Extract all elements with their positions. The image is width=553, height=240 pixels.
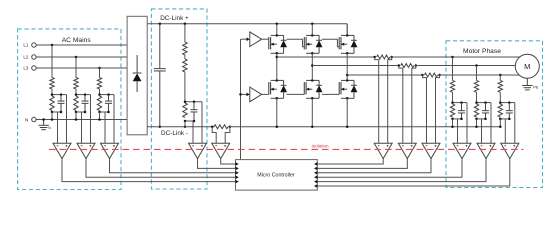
- wire shunt C sense minus: [423, 75, 427, 143]
- wire divider lead: [184, 24, 186, 42]
- junction phase C: [346, 74, 349, 77]
- wire DC RC to bus-: [184, 121, 186, 127]
- resistor R2 (line sense): [74, 78, 78, 90]
- arrow into controller left y=168.4: [235, 167, 238, 171]
- wire motor R11 to RC: [452, 92, 454, 102]
- junction shunt R10 left: [421, 74, 424, 77]
- wire DC sense minus: [192, 121, 194, 143]
- wire motor branch C to bus: [499, 119, 501, 127]
- capacitor C7 (motor RC): [485, 103, 487, 111]
- svg-text:AC Mains: AC Mains: [62, 37, 92, 44]
- wire R3 to divider: [99, 89, 101, 95]
- junction shunt R9 right: [415, 64, 418, 67]
- micro controller U3: [236, 160, 318, 191]
- wire A5 output to controller: [221, 159, 236, 164]
- junction motor branch B: [475, 64, 478, 67]
- ground PE (motor earth): [526, 78, 528, 85]
- svg-text:DC-Link -: DC-Link -: [161, 130, 188, 137]
- junction neutral-ground: [42, 118, 45, 121]
- wire A1 output to controller: [62, 159, 236, 182]
- junction DC shunt right: [229, 126, 232, 129]
- junction DC shunt left: [211, 126, 214, 129]
- wire motor branch A down: [452, 57, 454, 80]
- transistor Q2 (high side): [303, 37, 305, 49]
- junction shunt R10 right: [438, 74, 441, 77]
- junction shunt R9 left: [398, 64, 401, 67]
- junction Q5 source on DC- bus: [311, 126, 314, 129]
- capacitor C6 (motor RC): [461, 103, 463, 111]
- capacitor C5 (DC RC): [193, 102, 195, 110]
- wire A10 output to controller: [317, 159, 486, 182]
- wire L3 to rectifier: [36, 67, 127, 69]
- resistor R5 (divider lower): [183, 59, 187, 72]
- arrow into controller right y=186: [314, 184, 317, 188]
- junction phase A: [276, 56, 279, 59]
- wire motor sense B minus: [481, 119, 483, 143]
- transistor Q1 (high side): [268, 37, 270, 49]
- junction Q2 drain on DC+ bus: [311, 23, 314, 26]
- node motor bar bottom A: [453, 118, 462, 120]
- wire phase A to motor: [392, 56, 528, 58]
- resistor R16 (motor RC): [498, 104, 502, 117]
- wire A7 output to controller: [317, 159, 407, 169]
- capacitor C1 (filter): [60, 95, 62, 101]
- arrow into bottom driver: [246, 93, 249, 97]
- transistor Q6 (low side): [338, 82, 340, 94]
- wire A6 output to controller: [317, 159, 383, 164]
- node divider top bar L2: [76, 94, 91, 96]
- wire motor sense C minus: [504, 119, 506, 143]
- op-amp A8 (phase C current): [422, 143, 440, 158]
- op-amp A6 (phase A current): [374, 143, 392, 158]
- svg-text:L2: L2: [23, 55, 29, 60]
- rectifier block: [127, 16, 147, 135]
- wire A2 output to controller: [86, 159, 236, 178]
- wire divider to RC: [184, 72, 186, 102]
- svg-text:L1: L1: [23, 43, 29, 48]
- wire A9 output to controller: [317, 159, 462, 178]
- wire phase C to shunt: [347, 74, 422, 76]
- junction L3 branch tap: [98, 67, 101, 70]
- transistor Q5 (low side): [303, 82, 305, 94]
- wire sense L1 plus: [66, 95, 68, 144]
- op-amp A4 (DC-link voltage): [189, 143, 207, 158]
- wire shunt C sense plus: [436, 75, 440, 143]
- wire phase leg 1 column: [276, 53, 278, 80]
- wire motor R12 to RC: [476, 92, 478, 102]
- wire Q3 drain: [346, 24, 348, 36]
- node motor bar top B: [477, 102, 492, 104]
- wire Q5 source: [311, 98, 313, 127]
- capacitor C4 (DC bus): [159, 24, 161, 69]
- junction L1 branch tap: [51, 44, 54, 47]
- capacitor C8 (motor RC): [508, 103, 510, 111]
- node divider bottom bar L2: [76, 111, 85, 113]
- wire DC-Link- bus: [147, 126, 214, 128]
- wire motor branch C down: [499, 75, 501, 80]
- gate driver U1 (top): [250, 32, 262, 47]
- wire L3 branch down: [99, 68, 101, 78]
- wire DC-Link- bus to motor section: [228, 126, 500, 128]
- wire top bus corner to Q3 drain: [346, 24, 348, 36]
- wire top gate bus seg1: [262, 38, 269, 40]
- arrow into top driver: [246, 37, 249, 41]
- junction Q6 source on DC- bus: [346, 126, 349, 129]
- node DC divider bar bottom: [185, 120, 194, 122]
- wire L2 branch down: [75, 57, 77, 78]
- junction driver feed: [239, 93, 242, 96]
- wire L1 to rectifier: [36, 44, 127, 46]
- wire DC-Link+ bus: [147, 23, 347, 25]
- wire top gate bus seg3: [322, 39, 339, 47]
- wire Q2 drain: [311, 24, 313, 36]
- wire A4 output to controller: [198, 159, 236, 169]
- wire shunt sense minus: [212, 127, 216, 143]
- wire sense L3 plus: [113, 95, 115, 144]
- wire sense L3 minus: [104, 112, 106, 143]
- op-amp A3 (L3 voltage sense): [101, 143, 119, 158]
- op-amp A10 (motor phase B): [477, 143, 495, 158]
- arrow into controller left y=181.6: [235, 180, 238, 184]
- op-amp A11 (motor phase C): [501, 143, 519, 158]
- transistor Q3 (high side): [338, 37, 340, 49]
- svg-text:M: M: [524, 62, 530, 71]
- arrow into controller right y=181.6: [314, 180, 317, 184]
- isolation barrier (red dashed): [49, 148, 524, 150]
- wire phase leg 3 column: [346, 53, 348, 80]
- wire motor branch B down: [476, 66, 478, 81]
- wire motor sense A minus: [457, 119, 459, 143]
- node divider bottom bar L1: [52, 111, 61, 113]
- wire A11 output to controller: [317, 159, 510, 186]
- capacitor C3 (filter): [108, 95, 110, 101]
- node divider bottom bar L3: [100, 111, 109, 113]
- gate driver U2 (bottom): [250, 87, 262, 102]
- wire A3 output to controller: [110, 159, 236, 173]
- resistor R4 (divider upper): [183, 42, 187, 55]
- resistor R15 (motor RC): [474, 104, 478, 117]
- arrow into controller left y=177.2: [235, 175, 238, 179]
- wire sense L2 plus: [90, 95, 92, 144]
- op-amp A2 (L2 voltage sense): [77, 143, 95, 158]
- wire bottom gate bus seg1: [262, 93, 269, 95]
- wire sense L2 minus: [81, 112, 83, 143]
- AC Mains dashed region box: [18, 29, 121, 190]
- Motor Phase dashed region box: [446, 41, 543, 188]
- op-amp A7 (phase B current): [398, 143, 416, 158]
- wire R2 to divider: [75, 89, 77, 95]
- node divider top bar L3: [100, 94, 115, 96]
- resistor R12 (motor sense): [474, 80, 478, 92]
- wire L2 to rectifier: [36, 56, 127, 58]
- motor M1: [515, 54, 539, 78]
- wire motor branch A to bus: [452, 119, 454, 127]
- junction shunt R8 left: [373, 56, 376, 59]
- resistor R7 (DC shunt): [214, 125, 228, 129]
- op-amp A5 (DC current sense): [212, 143, 230, 158]
- resistor R1 (line sense): [50, 78, 54, 90]
- arrow into controller right y=172.8: [314, 171, 317, 175]
- node motor bar top A: [453, 102, 468, 104]
- DC-Link dashed region box: [151, 9, 207, 189]
- resistor R13 (motor sense): [498, 80, 502, 92]
- junction DC cap top: [159, 23, 162, 26]
- arrow into controller right y=164: [314, 162, 317, 166]
- resistor R2b (divider): [74, 96, 78, 111]
- resistor R6 (DC RC): [183, 103, 187, 118]
- resistor R9 (phase shunt): [401, 64, 414, 68]
- transistor Q4 (low side): [268, 82, 270, 94]
- junction motor branch A: [451, 56, 454, 59]
- wire phase leg 2 column: [311, 53, 313, 80]
- wire DC sense plus: [201, 102, 203, 144]
- resistor R1b (divider): [50, 96, 54, 111]
- wire neutral bus: [36, 119, 127, 121]
- resistor R10 (phase shunt): [424, 73, 437, 77]
- svg-text:L3: L3: [23, 66, 29, 71]
- junction motor branch C: [499, 74, 502, 77]
- wire phase B to motor: [416, 65, 528, 67]
- junction phase B: [311, 64, 314, 67]
- resistor R11 (motor sense): [450, 80, 454, 92]
- svg-text:DC-Link +: DC-Link +: [160, 15, 189, 22]
- svg-text:Motor Phase: Motor Phase: [463, 48, 501, 55]
- arrow into controller left y=164: [235, 162, 238, 166]
- arrow into controller right y=168.4: [314, 167, 317, 171]
- node divider top bar L1: [52, 94, 67, 96]
- arrow into controller left y=172.8: [235, 171, 238, 175]
- wire sense L1 minus: [57, 112, 59, 143]
- wire motor branch B to bus: [476, 119, 478, 127]
- wire bottom gate bus seg3: [322, 93, 339, 95]
- op-amp A1 (L1 voltage sense): [53, 143, 71, 158]
- node motor bar bottom C: [500, 118, 509, 120]
- ground N (earth symbol): [43, 120, 45, 126]
- wire shunt A sense minus: [375, 57, 379, 143]
- wire phase C to motor: [440, 74, 528, 76]
- svg-text:Isolation: Isolation: [312, 143, 330, 148]
- wire motor sense C plus: [514, 103, 516, 144]
- svg-text:N: N: [48, 126, 51, 130]
- wire divider mid: [184, 55, 186, 59]
- wire phase A to shunt: [277, 56, 375, 58]
- resistor R14 (motor RC): [450, 104, 454, 117]
- junction Q1 drain on DC+ bus: [276, 23, 279, 26]
- wire motor sense A plus: [466, 103, 468, 144]
- svg-text:N: N: [25, 117, 28, 122]
- node motor bar top C: [500, 102, 515, 104]
- resistor R3 (line sense): [97, 78, 101, 90]
- resistor R3b (divider): [97, 96, 101, 111]
- wire Q6 source: [346, 98, 348, 127]
- junction L2 branch tap: [75, 56, 78, 59]
- node motor bar bottom B: [477, 118, 486, 120]
- wire branch L3 to neutral: [99, 112, 101, 120]
- op-amp A9 (motor phase A): [453, 143, 471, 158]
- wire phase B to shunt: [312, 65, 399, 67]
- node DC divider bar top: [185, 101, 202, 103]
- wire branch L2 to neutral: [75, 112, 77, 120]
- wire A8 output to controller: [317, 159, 431, 173]
- wire bottom gate bus seg2: [287, 93, 305, 95]
- wire shunt B sense plus: [412, 66, 416, 144]
- wire shunt B sense minus: [399, 66, 403, 144]
- wire R1 to divider: [51, 89, 53, 95]
- wire L1 branch down: [51, 45, 53, 78]
- junction Q4 source on DC- bus: [276, 126, 279, 129]
- svg-text:Micro Controller: Micro Controller: [257, 173, 295, 179]
- junction shunt R8 right: [390, 56, 393, 59]
- diode D1 (rectifier symbol): [136, 55, 138, 73]
- wire Q1 drain: [276, 24, 278, 36]
- wire motor R13 to RC: [499, 92, 501, 102]
- wire branch L1 to neutral: [51, 112, 53, 120]
- junction DC divider top: [184, 23, 187, 26]
- wire top gate bus seg2: [287, 39, 305, 47]
- wire controller to gate drivers: [240, 39, 242, 159]
- wire Q4 source: [276, 98, 278, 127]
- junction DC cap bottom: [159, 126, 162, 129]
- svg-text:PE: PE: [533, 84, 539, 89]
- wire shunt sense plus: [225, 127, 230, 143]
- wire motor sense B plus: [490, 103, 492, 144]
- capacitor C2 (filter): [84, 95, 86, 101]
- resistor R8 (phase shunt): [377, 55, 390, 59]
- wire shunt A sense plus: [388, 57, 392, 143]
- arrow into controller right y=177.2: [314, 175, 317, 179]
